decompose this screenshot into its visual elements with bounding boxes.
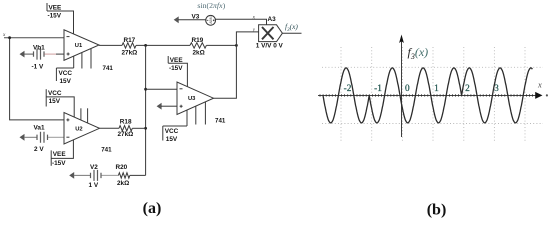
wire node B up to multiplier y input	[236, 32, 258, 46]
svg-text:R18: R18	[120, 118, 132, 125]
svg-text:741: 741	[103, 65, 114, 72]
svg-text:15V: 15V	[49, 98, 61, 105]
battery Vb1 (-1 V)	[20, 49, 65, 60]
junction at U3 minus input	[144, 88, 147, 91]
node x (input net, top-left)	[4, 37, 64, 39]
wire R19 to node B	[206, 44, 236, 46]
x axis with minor ticks	[318, 94, 537, 96]
svg-text:V3: V3	[192, 14, 200, 21]
battery Va1 (2 V)	[20, 132, 65, 143]
svg-text:(a): (a)	[143, 200, 162, 217]
op-amp U2 (inputs flipped: + on top)	[64, 113, 100, 145]
ground/input arrow terminal at U3 + input	[157, 103, 177, 110]
svg-text:0: 0	[405, 84, 410, 94]
op-amp U1	[64, 30, 99, 61]
power symbol VEE (-15V) above U3	[168, 56, 187, 87]
svg-text:2kΩ: 2kΩ	[117, 180, 129, 187]
svg-text:2kΩ: 2kΩ	[193, 50, 205, 57]
svg-text:VEE: VEE	[49, 4, 63, 11]
svg-text:VEE: VEE	[170, 57, 184, 64]
svg-text:R20: R20	[116, 164, 128, 171]
svg-text:2 V: 2 V	[34, 146, 44, 153]
svg-text:1 V/V 0 V: 1 V/V 0 V	[256, 42, 284, 49]
svg-text:U3: U3	[188, 96, 196, 102]
svg-text:R19: R19	[192, 37, 204, 44]
svg-text:-1 V: -1 V	[32, 64, 44, 71]
svg-text:2: 2	[465, 84, 470, 94]
svg-text:U1: U1	[75, 43, 83, 49]
svg-text:-1: -1	[374, 84, 382, 94]
power symbol VEE (-15V) below U2	[51, 140, 73, 166]
svg-text:15V: 15V	[166, 136, 178, 143]
svg-text:A3: A3	[268, 16, 277, 23]
svg-text:f3(x): f3(x)	[408, 45, 429, 61]
svg-text:-15V: -15V	[52, 160, 66, 167]
y axis	[401, 40, 403, 137]
svg-text:U2: U2	[75, 126, 82, 132]
resistor R19 2k	[190, 43, 206, 48]
svg-text:27kΩ: 27kΩ	[122, 50, 138, 57]
dotted vertical gridlines	[341, 47, 525, 142]
svg-text:(b): (b)	[427, 202, 447, 219]
resistor R17 27k	[122, 43, 136, 48]
wire V3 to multiplier x input	[216, 19, 267, 25]
wire node B down to U3 output	[214, 45, 237, 98]
svg-text:Va1: Va1	[34, 124, 45, 131]
svg-text:3: 3	[494, 84, 499, 94]
output wire f3(x)	[282, 32, 301, 34]
wire R20 to bus corner	[130, 174, 146, 176]
U2 unused pins above	[81, 108, 88, 123]
svg-text:VCC: VCC	[165, 128, 179, 135]
svg-text:-15V: -15V	[169, 65, 183, 72]
svg-text:27kΩ: 27kΩ	[118, 131, 134, 138]
power symbol VEE (-15V) above U1	[47, 3, 74, 34]
svg-text:-15V: -15V	[48, 13, 62, 20]
waveform curve f3(x)	[323, 68, 532, 123]
svg-text:VEE: VEE	[53, 151, 67, 158]
wire R17 to junction	[136, 44, 190, 46]
node x junction dot	[8, 36, 11, 39]
svg-text:VCC: VCC	[59, 70, 73, 77]
multiplier A3	[259, 25, 283, 42]
svg-text:V2: V2	[90, 164, 98, 171]
junction at R18	[144, 127, 147, 130]
wire U1 output to R17	[99, 44, 122, 46]
power symbol VCC (15V) below U3	[163, 126, 187, 141]
svg-text:15V: 15V	[60, 78, 72, 85]
power symbol VCC (15V) above U2	[46, 89, 74, 117]
svg-text:R17: R17	[124, 37, 136, 44]
svg-text:1: 1	[434, 84, 439, 94]
wire R18 to bus	[132, 127, 145, 129]
svg-text:x: x	[537, 80, 542, 90]
sine source V3 sin(2*pi*f*x)	[174, 15, 216, 25]
op-amp U3	[177, 82, 214, 115]
svg-text:741: 741	[101, 146, 112, 153]
U3 power pins below	[187, 102, 205, 126]
wire U2 output to R18	[100, 127, 120, 129]
dotted horizontal gridlines at +1/-1	[322, 67, 543, 123]
power symbol VCC (15V) below U1	[56, 68, 73, 81]
svg-text:sin(2πfx): sin(2πfx)	[197, 1, 225, 10]
svg-text:ABM: ABM	[209, 16, 213, 24]
wire vertical bus from node x down to U2 + input	[10, 38, 64, 120]
svg-text:-2: -2	[344, 84, 352, 94]
summing bus vertical wire	[145, 45, 147, 175]
resistor R20 2k	[118, 173, 129, 178]
battery V2 (1 V)	[69, 170, 118, 181]
svg-text:Vb1: Vb1	[33, 45, 45, 52]
svg-text:1 V: 1 V	[89, 182, 99, 189]
node B junction dot	[235, 44, 238, 47]
resistor R18 27k	[119, 126, 132, 131]
junction A (summing bus top)	[144, 44, 147, 47]
svg-text:741: 741	[215, 117, 226, 124]
wire to U3 minus	[146, 88, 177, 90]
axis labels	[344, 84, 500, 94]
U1 power pins below	[74, 49, 91, 69]
svg-text:VCC: VCC	[48, 90, 62, 97]
